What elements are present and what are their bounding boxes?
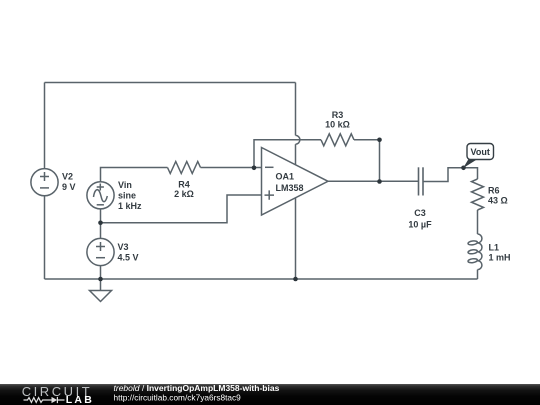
svg-text:R3: R3 bbox=[332, 110, 344, 120]
label V2 9V bbox=[62, 172, 76, 193]
logo wire-diode symbol bbox=[24, 397, 65, 403]
V2 minus marker bbox=[40, 187, 49, 189]
label V3 4.5V bbox=[118, 242, 139, 262]
op-amp OA1 non-inverting pin marker bbox=[265, 190, 275, 199]
wire non-inverting input bbox=[101, 195, 262, 223]
Vin plus marker bbox=[97, 184, 104, 191]
junction at op-amp V- supply node bbox=[293, 277, 298, 282]
op-amp OA1 inverting pin marker bbox=[265, 166, 274, 168]
wire top rail bbox=[45, 82, 296, 84]
ground bbox=[90, 291, 112, 302]
svg-text:Vout: Vout bbox=[471, 147, 490, 157]
wire Vin top to R4 bbox=[101, 168, 168, 182]
V3 minus marker bbox=[96, 257, 105, 259]
wire supply drop below hop bbox=[295, 144, 297, 165]
svg-text:sine: sine bbox=[118, 191, 136, 201]
svg-text:1 mH: 1 mH bbox=[489, 253, 511, 263]
svg-text:Vin: Vin bbox=[118, 180, 132, 190]
svg-text:LAB: LAB bbox=[66, 394, 94, 405]
wire V3 bottom bbox=[100, 266, 102, 279]
svg-text:C3: C3 bbox=[414, 208, 426, 218]
junction at Vin/V3 node bbox=[98, 221, 103, 226]
wire Vout node to R6 bbox=[464, 168, 478, 179]
wire node to V3 top bbox=[100, 223, 102, 239]
inductor L1 bbox=[468, 234, 482, 270]
wire R4 to inverting node bbox=[201, 167, 262, 169]
op-amp OA1 triangle body bbox=[262, 148, 329, 216]
label Vin sine 1kHz bbox=[118, 180, 142, 211]
svg-text:R4: R4 bbox=[178, 180, 190, 190]
wire V+ supply drop bbox=[295, 83, 297, 136]
label L1 1mH bbox=[489, 243, 511, 263]
op-amp OA1 bbox=[262, 148, 329, 216]
svg-text:1 kHz: 1 kHz bbox=[118, 201, 142, 211]
svg-text:http://circuitlab.com/ck7ya6rs: http://circuitlab.com/ck7ya6rs8tac9 bbox=[114, 393, 242, 403]
V3 plus marker bbox=[96, 242, 105, 251]
wire ground stem bbox=[100, 279, 102, 291]
svg-text:OA1: OA1 bbox=[276, 172, 295, 182]
label R6 43Ω bbox=[488, 186, 508, 206]
svg-text:10 µF: 10 µF bbox=[408, 219, 432, 229]
label R3 10kΩ bbox=[325, 110, 350, 130]
resistor R3 bbox=[321, 134, 354, 146]
svg-text:trebold / InvertingOpAmpLM358-: trebold / InvertingOpAmpLM358-with-bias bbox=[114, 383, 280, 393]
V2 circle body bbox=[31, 169, 58, 196]
svg-text:43 Ω: 43 Ω bbox=[488, 196, 508, 206]
svg-text:V2: V2 bbox=[62, 172, 73, 182]
voltage source V3 bbox=[87, 238, 114, 265]
wire op-amp V- drop bbox=[295, 198, 297, 279]
voltage source Vin (sine) bbox=[87, 182, 114, 209]
svg-text:L1: L1 bbox=[489, 243, 500, 253]
wire feedback left bbox=[254, 140, 321, 168]
wire R3 right down to output bbox=[354, 140, 380, 182]
wire V2 bottom to bottom rail bbox=[44, 196, 46, 279]
wire hop arc on supply over feedback bbox=[296, 135, 300, 144]
svg-text:R6: R6 bbox=[488, 186, 500, 196]
wire bottom rail bbox=[45, 278, 478, 280]
Vin minus marker bbox=[97, 204, 104, 206]
Vin circle body bbox=[87, 182, 114, 209]
wire Vin bottom bbox=[100, 209, 102, 223]
label OA1 LM358 bbox=[276, 172, 304, 194]
svg-text:V3: V3 bbox=[118, 242, 129, 252]
capacitor C3 bbox=[419, 167, 424, 195]
svg-text:10 kΩ: 10 kΩ bbox=[325, 120, 350, 130]
svg-text:4.5 V: 4.5 V bbox=[118, 253, 139, 263]
wire L1 bottom bbox=[477, 270, 479, 279]
resistor R4 bbox=[168, 162, 201, 174]
wire left rail to V2 top bbox=[44, 83, 46, 169]
junction at output node bbox=[377, 179, 382, 184]
svg-text:9 V: 9 V bbox=[62, 182, 76, 192]
V2 plus marker bbox=[40, 172, 49, 181]
voltage source V2 bbox=[31, 169, 58, 196]
Vin sine wave symbol bbox=[94, 190, 108, 202]
svg-text:LM358: LM358 bbox=[276, 183, 304, 193]
wire R6 to L1 bbox=[477, 210, 479, 234]
label C3 10uF bbox=[408, 208, 432, 229]
node Vout flag bbox=[463, 144, 493, 169]
resistor R6 bbox=[472, 179, 484, 210]
V3 circle body bbox=[87, 238, 114, 265]
junction at inverting input node bbox=[252, 166, 257, 171]
label R4 2kΩ bbox=[174, 180, 194, 200]
wire C3 to Vout node bbox=[423, 168, 464, 182]
junction at R3 right corner bbox=[377, 138, 382, 143]
svg-text:2 kΩ: 2 kΩ bbox=[174, 189, 194, 199]
wire output to C3 bbox=[328, 180, 419, 182]
junction at ground node bbox=[98, 277, 103, 282]
junction at Vout node bbox=[461, 166, 466, 171]
